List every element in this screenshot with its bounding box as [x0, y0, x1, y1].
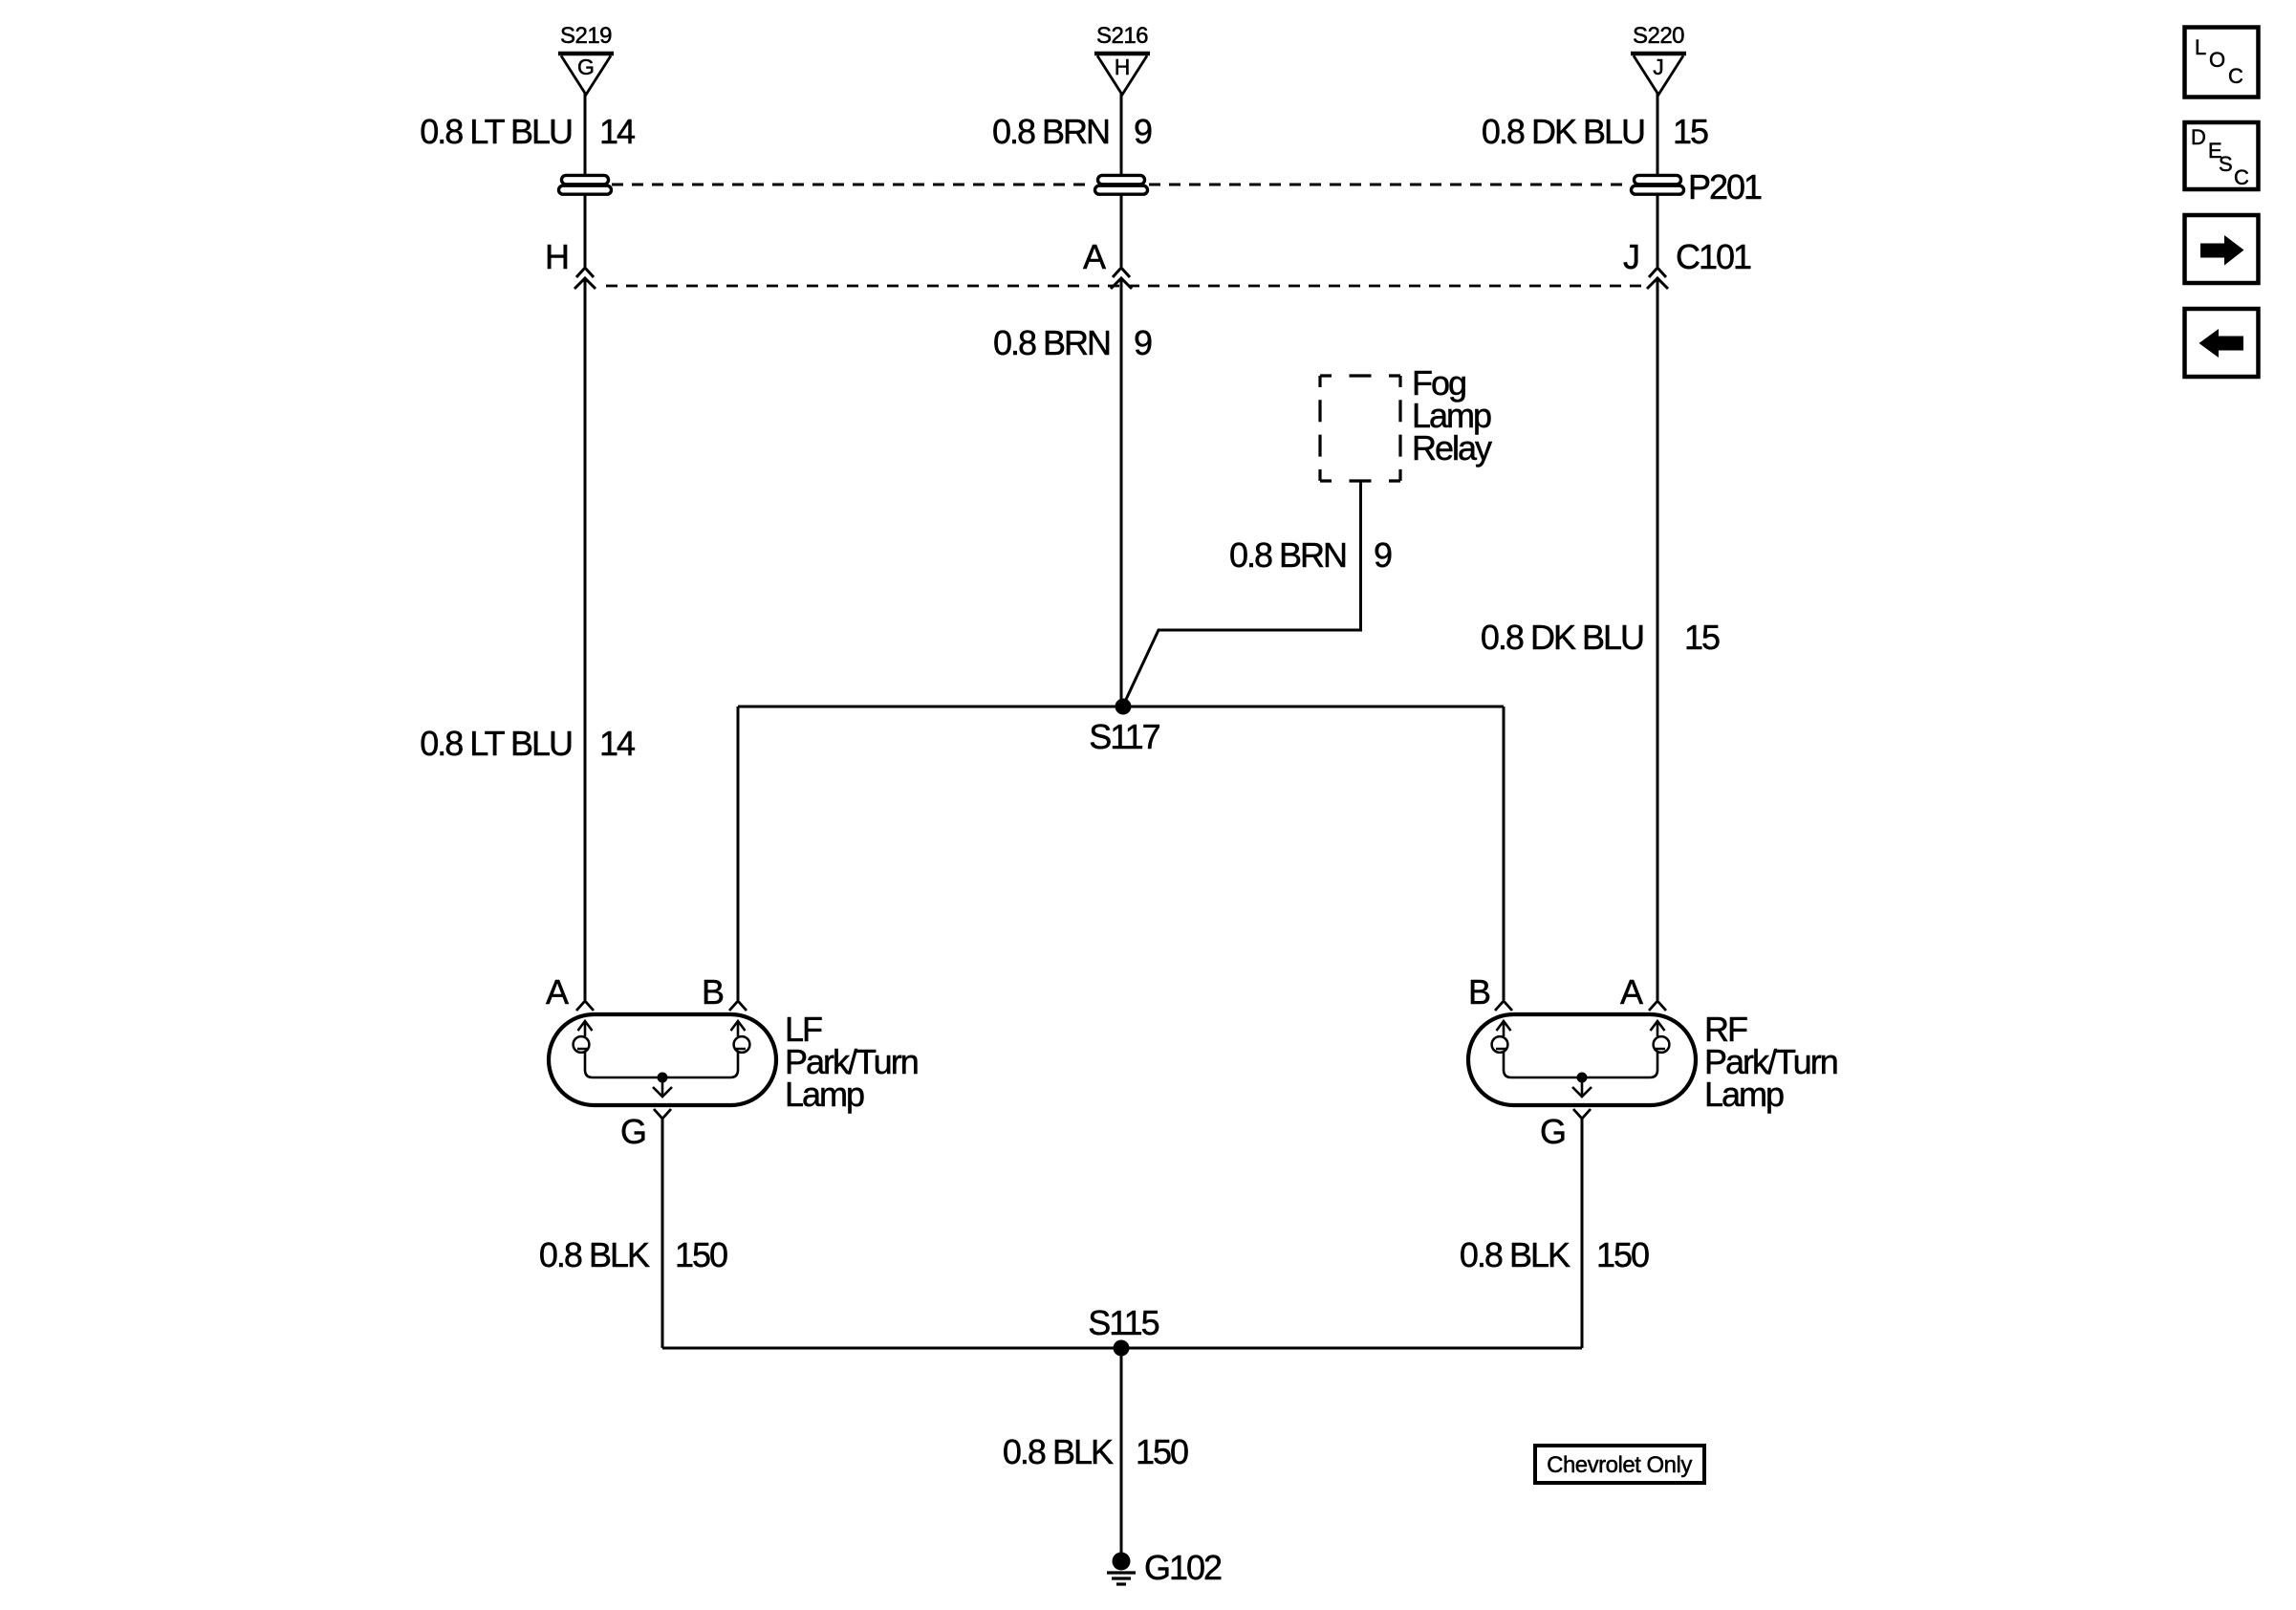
svg-text:D: D	[2191, 125, 2206, 149]
splice symbol S220	[1631, 23, 1686, 95]
svg-text:0.8 BRN: 0.8 BRN	[992, 112, 1109, 151]
svg-text:0.8 LT BLU: 0.8 LT BLU	[420, 724, 572, 763]
label 0.8 BRN 9 (below C101)	[993, 323, 1152, 362]
DESC button	[2185, 122, 2259, 189]
svg-text:Chevrolet Only: Chevrolet Only	[1547, 1452, 1692, 1478]
LF lamp terminal A female chevron	[576, 1001, 594, 1011]
fog lamp relay dashed box	[1320, 376, 1400, 481]
svg-text:150: 150	[675, 1235, 727, 1274]
svg-text:0.8 DK BLU: 0.8 DK BLU	[1481, 618, 1643, 657]
label 0.8 BLK 150 (left)	[539, 1235, 727, 1274]
svg-text:Lamp: Lamp	[785, 1075, 864, 1114]
svg-text:0.8 BRN: 0.8 BRN	[1229, 535, 1346, 575]
svg-text:S220: S220	[1633, 23, 1684, 49]
svg-text:P201: P201	[1688, 167, 1762, 207]
svg-text:H: H	[545, 237, 568, 276]
RF park/turn lamp body	[1468, 1014, 1696, 1105]
svg-text:14: 14	[599, 112, 635, 151]
splice S117 horizontal wire	[738, 706, 1504, 708]
label Fog Lamp Relay	[1412, 363, 1492, 468]
svg-text:0.8 DK BLU: 0.8 DK BLU	[1482, 112, 1644, 151]
dashed connector line C101	[606, 285, 1649, 288]
label RF Park/Turn Lamp	[1704, 1010, 1837, 1114]
RF lamp terminal G chevron	[1573, 1109, 1591, 1119]
svg-text:G102: G102	[1144, 1548, 1222, 1587]
svg-text:L: L	[2195, 35, 2206, 59]
male terminal arrow below C101 (middle)	[1111, 278, 1132, 289]
svg-text:9: 9	[1134, 112, 1152, 151]
RF lamp inner filament bus	[1511, 1077, 1650, 1079]
label 0.8 BRN 9 (relay wire)	[1229, 535, 1392, 575]
svg-text:G: G	[620, 1112, 645, 1151]
splice symbol S219	[558, 23, 614, 95]
splice S115 horizontal wire	[662, 1347, 1582, 1350]
wire from S216 down to grommet	[1120, 93, 1123, 176]
grommet pass-through on middle wire	[1095, 175, 1148, 194]
female terminal A at C101	[1113, 268, 1130, 277]
wire left column C101 to LF lamp A	[584, 278, 587, 1000]
svg-text:O: O	[2209, 48, 2225, 72]
svg-text:Lamp: Lamp	[1704, 1075, 1784, 1114]
ground symbol G102	[1107, 1553, 1136, 1585]
svg-text:G: G	[577, 54, 595, 79]
svg-text:A: A	[546, 972, 569, 1012]
LF lamp ground pin down arrow	[653, 1077, 672, 1097]
label 0.8 LT BLU 14 (middle)	[420, 724, 635, 763]
svg-text:S: S	[2219, 152, 2233, 176]
svg-text:0.8 BRN: 0.8 BRN	[993, 323, 1110, 362]
wire from grommet to connector C101 (middle)	[1120, 195, 1123, 267]
wire S115 down to ground G102	[1120, 1348, 1123, 1554]
LF lamp inner junction dot	[658, 1073, 668, 1083]
RF lamp ground pin down arrow	[1572, 1077, 1592, 1097]
svg-text:15: 15	[1684, 618, 1720, 657]
male terminal arrow below C101 (left)	[574, 278, 596, 289]
svg-text:0.8 LT BLU: 0.8 LT BLU	[420, 112, 572, 151]
wire right column C101 to RF lamp A	[1657, 278, 1659, 1000]
wire from grommet to connector C101 (right)	[1657, 195, 1659, 267]
male terminal arrow below C101 (right)	[1647, 278, 1668, 289]
svg-text:S216: S216	[1096, 23, 1148, 49]
svg-text:B: B	[1468, 972, 1490, 1012]
label 0.8 BLK 150 (right)	[1460, 1235, 1649, 1274]
svg-text:C101: C101	[1676, 237, 1751, 276]
dashed bulkhead line P201 right span	[1149, 184, 1630, 186]
next page arrow button	[2185, 215, 2259, 283]
svg-text:A: A	[1620, 972, 1643, 1012]
wire S117 down to LF lamp B	[737, 707, 740, 1000]
wire middle column C101 to splice S117	[1120, 278, 1123, 707]
svg-text:150: 150	[1136, 1432, 1188, 1471]
svg-text:14: 14	[599, 724, 635, 763]
svg-text:15: 15	[1673, 112, 1708, 151]
svg-text:0.8 BLK: 0.8 BLK	[1460, 1235, 1570, 1274]
label 0.8 BRN 9 (top)	[992, 112, 1152, 151]
svg-text:G: G	[1540, 1112, 1565, 1151]
svg-text:J: J	[1623, 237, 1638, 276]
grommet pass-through on left wire	[559, 175, 612, 194]
wire RF lamp G down to S115	[1581, 1119, 1584, 1348]
splice S117 junction dot	[1116, 699, 1132, 715]
Chevrolet Only note box	[1535, 1446, 1704, 1483]
female terminal H at C101	[576, 268, 594, 277]
label LF Park/Turn Lamp	[785, 1010, 918, 1114]
grommet pass-through on right wire P201	[1632, 175, 1684, 194]
svg-text:0.8 BLK: 0.8 BLK	[1003, 1432, 1114, 1471]
svg-text:S117: S117	[1089, 717, 1159, 756]
label 0.8 BLK 150 (bottom)	[1003, 1432, 1188, 1471]
wire LF lamp G down to S115	[661, 1119, 664, 1348]
LF lamp pin B arrow and filament curl	[730, 1021, 749, 1077]
svg-text:J: J	[1653, 54, 1664, 79]
svg-text:C: C	[2228, 64, 2243, 88]
RF lamp terminal A female chevron	[1649, 1001, 1666, 1011]
LF park/turn lamp body	[549, 1014, 776, 1105]
svg-text:S219: S219	[560, 23, 612, 49]
label 0.8 DK BLU 15 (top)	[1482, 112, 1708, 151]
label 0.8 DK BLU 15 (middle)	[1481, 618, 1720, 657]
RF lamp terminal B female chevron	[1495, 1001, 1512, 1011]
svg-text:H: H	[1115, 54, 1131, 79]
RF lamp pin B arrow and filament curl	[1492, 1021, 1511, 1077]
wire from fog lamp relay to S117	[1123, 481, 1361, 706]
previous page arrow button	[2185, 309, 2259, 377]
svg-text:9: 9	[1374, 535, 1392, 575]
RF lamp inner junction dot	[1577, 1073, 1588, 1083]
svg-text:0.8 BLK: 0.8 BLK	[539, 1235, 650, 1274]
dashed bulkhead line P201 left span	[612, 184, 1094, 186]
svg-text:Relay: Relay	[1412, 428, 1492, 468]
wire from S219 down to grommet	[584, 93, 587, 176]
splice S115 junction dot	[1114, 1340, 1130, 1357]
LF lamp terminal G chevron	[654, 1109, 671, 1119]
svg-text:A: A	[1083, 237, 1106, 276]
LF lamp inner filament bus	[593, 1077, 730, 1079]
splice symbol S216	[1094, 23, 1150, 95]
female terminal J at C101	[1649, 268, 1666, 277]
label 0.8 LT BLU 14 (top)	[420, 112, 635, 151]
LF lamp pin A arrow and filament curl	[574, 1021, 593, 1077]
svg-text:150: 150	[1596, 1235, 1649, 1274]
wire from S220 down to grommet	[1657, 93, 1659, 176]
wire S117 down to RF lamp B	[1503, 707, 1505, 1000]
wire from grommet to connector C101 (left)	[584, 195, 587, 267]
LOC button	[2185, 28, 2259, 98]
RF lamp pin A arrow and filament curl	[1650, 1021, 1669, 1077]
svg-text:B: B	[702, 972, 724, 1012]
svg-text:9: 9	[1134, 323, 1152, 362]
svg-text:C: C	[2234, 165, 2249, 189]
svg-text:S115: S115	[1088, 1303, 1159, 1342]
LF lamp terminal B female chevron	[729, 1001, 747, 1011]
